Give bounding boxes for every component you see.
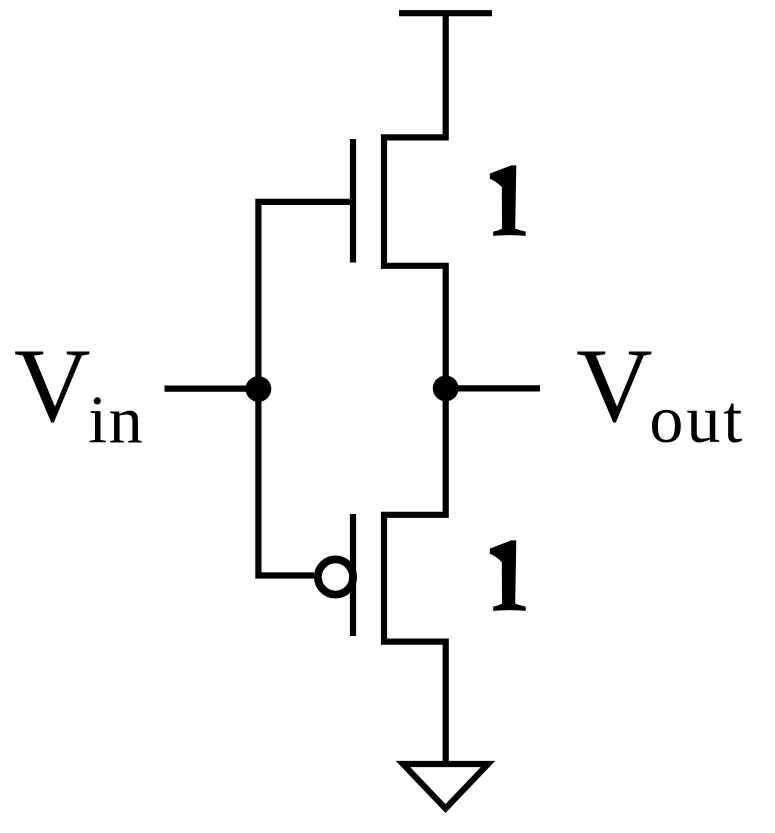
ground symbol [403, 764, 488, 809]
node IN junction dot [246, 376, 272, 402]
transistor M1 gate bar [350, 139, 356, 263]
wire node OUT to M2 drain, M2 channel, wire M2 source to ground [384, 388, 446, 764]
transistor M2 gate bubble [318, 559, 353, 594]
svg-text:in: in [88, 381, 144, 457]
value label 1 (M2 W/L) [490, 540, 526, 611]
node OUT junction dot [433, 376, 459, 402]
wire M1 gate lead, left gate column, M2 gate lead [258, 202, 353, 576]
VDD supply rail [399, 10, 492, 16]
wire Vin input [165, 386, 259, 392]
value label 1 (M1 W/L) [490, 165, 526, 236]
transistor M2 gate bar [350, 514, 356, 636]
svg-text:out: out [649, 381, 745, 457]
wire VDD to M1 drain, M1 channel, wire M1 source to node OUT [384, 13, 446, 388]
svg-text:V: V [576, 327, 653, 444]
wire Vout output [446, 385, 540, 391]
svg-text:V: V [14, 327, 91, 444]
